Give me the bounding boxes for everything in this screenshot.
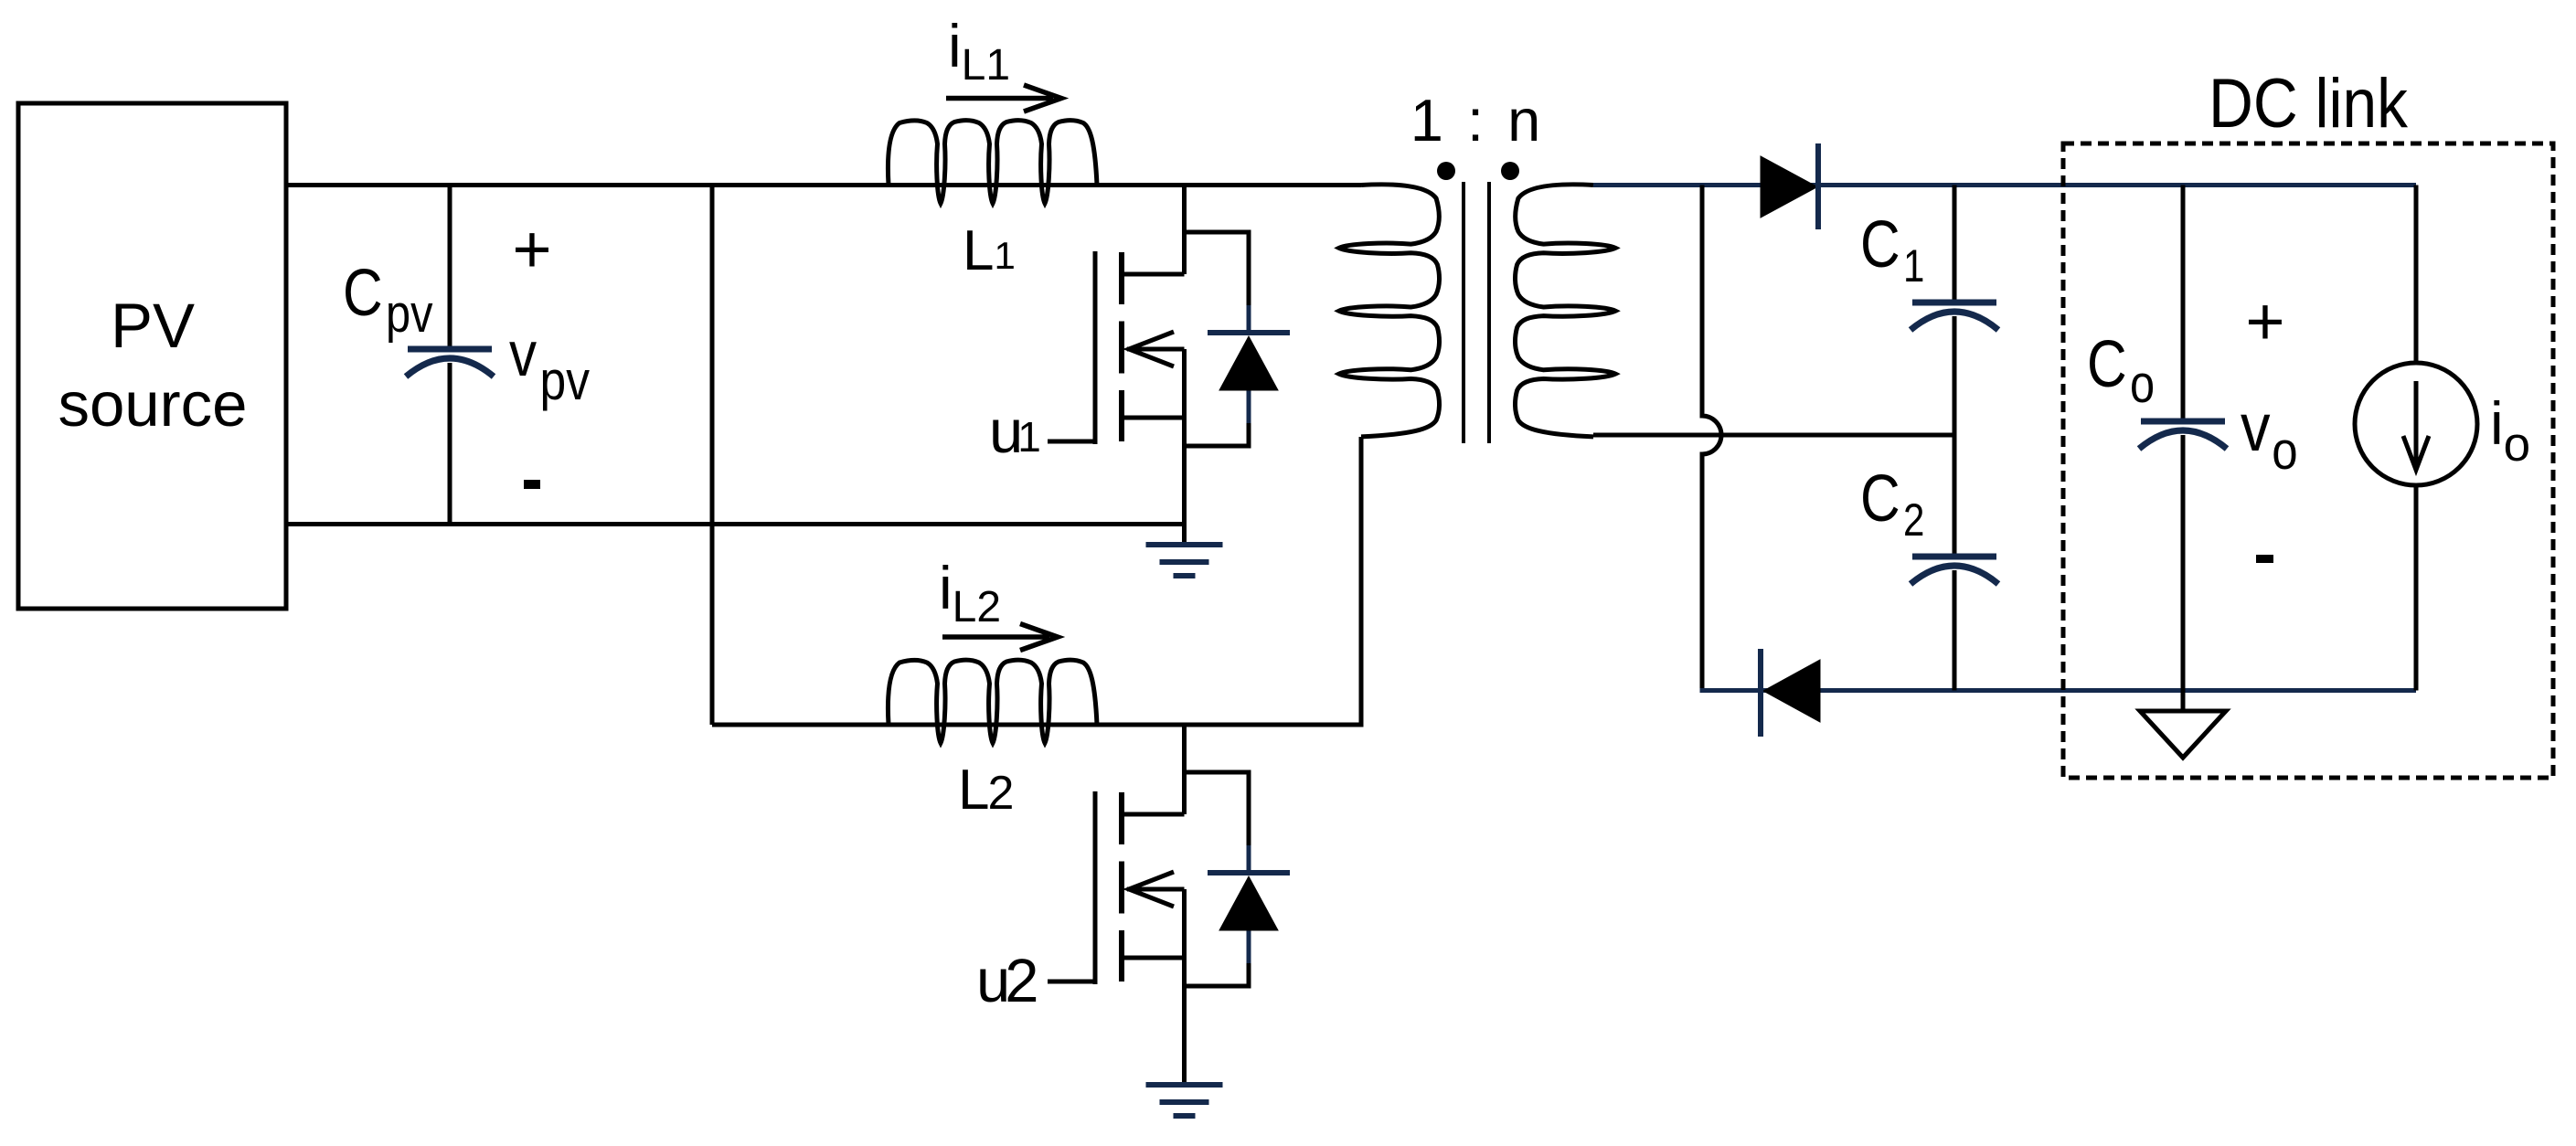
label minus vo <box>2256 555 2273 563</box>
svg-text:PV: PV <box>111 291 195 361</box>
svg-text:+: + <box>512 211 551 287</box>
DC link dashed box <box>2063 143 2553 778</box>
diode D1 <box>1761 156 1817 218</box>
transistor u2 (MOSFET with body diode) <box>1093 791 1098 984</box>
wire vertical with hop (top rail to bottom rail) <box>1702 186 1721 691</box>
wire PV bottom rail <box>286 522 1185 526</box>
svg-text:L2: L2 <box>958 759 1014 822</box>
label Cpv <box>343 257 433 344</box>
svg-text:u2: u2 <box>976 947 1039 1015</box>
transformer polarity dot primary <box>1437 162 1455 180</box>
transformer T1 secondary winding <box>1515 185 1615 437</box>
svg-text:+: + <box>2245 283 2284 359</box>
capacitor C1 <box>1953 186 1957 301</box>
wire top rail (PV plus to transformer primary) <box>286 183 1361 187</box>
ground (u1 source) <box>1146 542 1223 547</box>
label C2 <box>1860 462 1924 546</box>
wire lower rail (to L2) <box>712 723 1364 727</box>
label Co <box>2087 328 2155 414</box>
svg-text:1 : n: 1 : n <box>1410 87 1544 154</box>
transformer core <box>1462 182 1465 443</box>
inductor L2 <box>888 660 1097 743</box>
label minus vpv <box>524 480 540 489</box>
capacitor Co <box>2181 186 2186 419</box>
label vo <box>2241 389 2298 481</box>
wire bottom rail (navy) <box>1700 688 2417 693</box>
arrow iL2 <box>942 624 1058 651</box>
wire secondary bottom to C mid node <box>1593 433 1954 438</box>
label vpv <box>509 318 590 411</box>
label C1 <box>1860 208 1924 292</box>
arrow iL1 <box>946 85 1061 111</box>
transformer polarity dot secondary <box>1501 162 1519 180</box>
capacitor C2 <box>1953 435 1957 554</box>
svg-text:source: source <box>58 369 247 440</box>
PV source box <box>18 103 286 609</box>
current source io <box>2414 186 2419 364</box>
wire primary bottom vertical <box>1359 437 1364 725</box>
transformer T1 primary winding <box>1339 185 1440 437</box>
capacitor Cpv <box>448 186 452 347</box>
diode D2 <box>1763 660 1820 722</box>
label DC link <box>2209 65 2409 143</box>
ground (DC link, open triangle) <box>2181 691 2186 712</box>
transistor u1 (MOSFET with body diode) <box>1093 251 1098 444</box>
wire vertical feed to lower branch <box>710 186 715 726</box>
wire secondary top (navy) <box>1593 183 2416 187</box>
ground (u2 source) <box>1146 1082 1223 1088</box>
svg-text:DC link: DC link <box>2209 65 2409 143</box>
inductor L1 <box>888 121 1097 204</box>
